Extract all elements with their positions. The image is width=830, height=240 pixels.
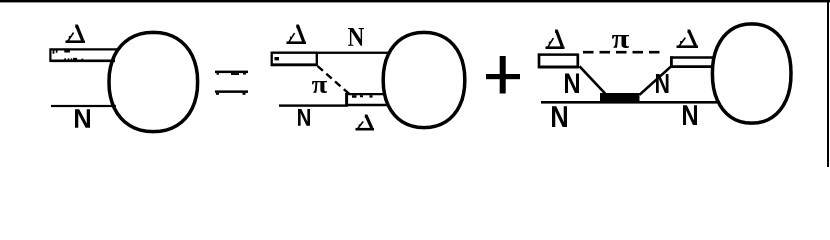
nucleon bottom line N3 <box>541 101 720 104</box>
Delta double-line box D2b (lower) <box>346 93 389 106</box>
label N (diagram 3 inner right) <box>656 74 669 93</box>
label Delta (diagram 3 upper right) <box>677 30 699 49</box>
Delta double-line box D3a (upper left) <box>539 53 579 68</box>
label Delta (diagram 2 upper left) <box>287 25 307 45</box>
nucleon line N2-upper (continues from box to blob) <box>316 52 390 54</box>
label N (diagram 2 lower) <box>298 109 310 126</box>
label Delta (diagram 2 lower) <box>356 115 375 131</box>
label N (diagram 3 lower right) <box>683 105 697 125</box>
label N (diagram 1 incoming) <box>75 109 90 128</box>
nucleon internal diagonal line N3b <box>640 66 672 95</box>
blob B2 <box>383 32 465 127</box>
equals sign upper stroke <box>215 71 248 75</box>
Delta double-line box D3b (upper right) <box>671 56 715 68</box>
label pi (diagram 3) <box>612 35 629 48</box>
label N (diagram 3 lower left) <box>552 106 567 127</box>
right border line of figure box <box>827 0 829 167</box>
nucleon line N2-lower <box>279 104 348 106</box>
label N (diagram 3 inner left) <box>565 74 579 94</box>
blob B1 (hadronic amplitude circle) <box>109 32 198 131</box>
contact interaction thick bar on nucleon line <box>600 93 640 103</box>
nucleon line N1 <box>51 105 116 107</box>
top border line of figure box <box>0 0 830 2</box>
pion dashed horizontal propagator P3 <box>583 51 665 54</box>
blob B3 <box>712 24 791 123</box>
pion dashed propagator P2 (diagonal) <box>318 66 352 96</box>
plus sign <box>486 56 520 94</box>
label Delta (diagram 1 incoming) <box>66 25 86 44</box>
Delta double-line box D2a (upper left) <box>272 52 318 67</box>
label N (diagram 2 upper) <box>348 28 364 46</box>
Delta propagator double-line box D1 <box>50 48 117 62</box>
equals sign lower stroke <box>215 90 248 94</box>
label Delta (diagram 3 upper left) <box>546 30 565 50</box>
nucleon internal diagonal line N3a <box>580 66 607 95</box>
label pi (diagram 2) <box>312 81 327 93</box>
